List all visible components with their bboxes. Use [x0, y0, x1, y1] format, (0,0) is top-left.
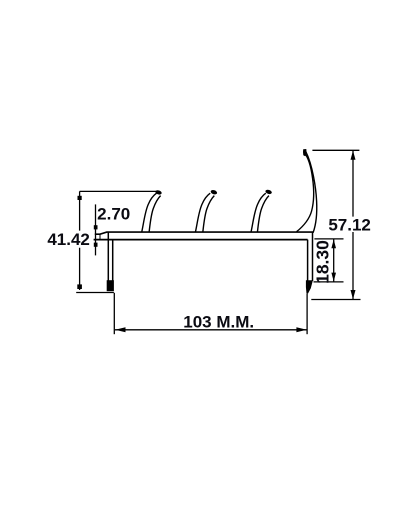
big fin outer edge — [306, 152, 317, 233]
right leg foot wedge (filled) — [306, 280, 313, 294]
dim 103 left vertical extension line — [113, 293, 115, 334]
dim 2.70 upper square tick — [94, 225, 98, 229]
fin 2 left edge — [195, 193, 210, 232]
dim 41.42 bottom square tick — [77, 284, 82, 289]
profile left lip end cap — [99, 234, 101, 239]
fin 2 right edge — [203, 196, 215, 233]
fin 1 tip blob — [155, 189, 163, 195]
dim 2.70 lower square tick — [94, 243, 98, 247]
fin 1 left edge — [142, 193, 157, 232]
dim 57.12 bottom extension line — [311, 299, 360, 301]
left leg foot (filled) — [107, 280, 114, 291]
fin 3 tip blob — [265, 189, 273, 195]
dim 18.30 bottom arrowhead — [331, 273, 336, 282]
dim 2.70 vertical dimension line — [95, 204, 97, 255]
svg-text:103 M.M.: 103 M.M. — [183, 313, 254, 332]
svg-text:57.12: 57.12 — [328, 215, 371, 234]
dim 103 right vertical extension line — [306, 294, 308, 334]
dim 41.42 vertical dimension line (gap for text) — [79, 191, 81, 290]
svg-text:2.70: 2.70 — [97, 205, 130, 224]
big fin tip blob — [303, 149, 307, 156]
dim 57.12 bottom arrowhead — [351, 290, 356, 299]
big fin inner edge — [297, 152, 314, 231]
dim 103 horizontal dimension line — [115, 329, 307, 331]
right leg inner wall — [307, 240, 309, 281]
dim 18.30 bottom extension line — [314, 281, 344, 283]
fin 3 right edge — [257, 196, 269, 233]
dim 57.12 top arrowhead — [351, 151, 356, 160]
dim 18.30 top arrowhead — [331, 239, 336, 248]
right leg outer wall — [312, 232, 314, 281]
fin 2 tip blob — [210, 189, 218, 195]
dim 41.42 top extension line to fin1 tip — [80, 190, 157, 192]
dim 41.42 bottom extension line — [76, 292, 114, 294]
left leg outer wall — [107, 232, 109, 282]
left leg inner wall — [112, 240, 114, 283]
fin 1 right edge — [149, 196, 161, 233]
dim 57.12 top extension line — [312, 149, 359, 151]
dim 41.42 top square tick — [78, 196, 82, 200]
dim 103 left arrowhead — [115, 327, 125, 332]
dim 18.30 vertical dimension line — [333, 239, 335, 282]
dim 103 right arrowhead — [296, 327, 306, 332]
svg-text:41.42: 41.42 — [47, 230, 90, 249]
svg-text:18.30: 18.30 — [313, 240, 333, 284]
dim 18.30 top extension line — [314, 238, 343, 240]
profile top wall inner (bottom) line — [94, 239, 308, 241]
dim 57.12 vertical dimension line (gap for text) — [352, 150, 354, 299]
profile top wall outer (top) line — [95, 232, 314, 234]
fin 3 left edge — [251, 193, 266, 232]
